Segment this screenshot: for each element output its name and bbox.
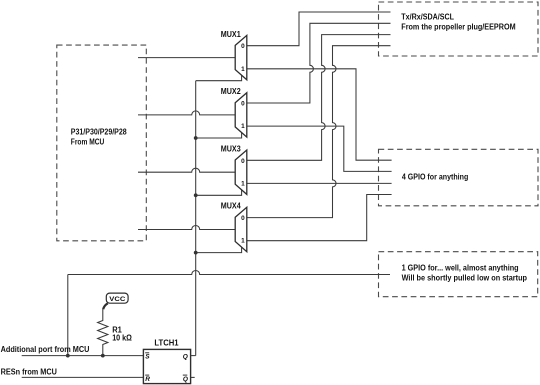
svg-text:1: 1: [241, 123, 245, 130]
node select bus to MUX3: [194, 193, 198, 197]
node resistor bottom junction: [101, 354, 105, 358]
dashed box: 4 GPIO for anything: [379, 149, 539, 206]
node select bus to MUX2: [194, 136, 198, 140]
svg-text:LTCH1: LTCH1: [154, 338, 179, 347]
svg-text:0: 0: [241, 43, 245, 50]
svg-text:0: 0: [241, 158, 245, 165]
wire MUX3 input from MCU box (hops over select bus): [138, 168, 235, 172]
multiplexer MUX4: [235, 207, 247, 251]
pin R latch: [145, 375, 150, 383]
wire MUX3 output 0 to Tx/Rx box (vertical hops over MUX1,MUX2 out1): [247, 35, 391, 161]
svg-text:MUX4: MUX4: [221, 202, 241, 211]
svg-text:1 GPIO for... well, almost any: 1 GPIO for... well, almost anything: [402, 264, 519, 273]
wire MUX1 output 1 to GPIO box: [247, 69, 392, 160]
wire MUX2 input from MCU box (hops over select bus): [138, 111, 235, 115]
node select bus to MUX4: [194, 251, 198, 255]
wire MUX2 output 0 to Tx/Rx box (vertical hops over MUX1 out1): [247, 23, 391, 103]
pin S latch: [145, 353, 150, 361]
wire MUX1 select: [196, 75, 242, 81]
wire MUX4 output 1 to GPIO box: [247, 195, 392, 241]
svg-text:0: 0: [241, 215, 245, 222]
dashed box: P31/P30/P29/P28 from MCU: [57, 45, 147, 241]
power VCC: [103, 293, 128, 309]
svg-text:From the propeller plug/EEPROM: From the propeller plug/EEPROM: [401, 23, 516, 32]
svg-text:S: S: [145, 354, 150, 361]
multiplexer MUX2: [235, 93, 247, 137]
svg-text:0: 0: [241, 101, 245, 108]
wire MUX1 input from MCU box: [138, 57, 235, 59]
wire latch Qbar stub: [191, 376, 195, 378]
svg-text:P31/P30/P29/P28: P31/P30/P29/P28: [71, 128, 127, 137]
svg-text:10 kΩ: 10 kΩ: [112, 334, 132, 343]
svg-text:MUX3: MUX3: [221, 144, 241, 153]
wire MUX3 select: [196, 190, 242, 196]
svg-text:Q: Q: [183, 354, 188, 361]
svg-text:1: 1: [241, 66, 245, 73]
wire vertical from 1 GPIO wire down to additional port wire: [67, 275, 69, 356]
wire MUX2 select: [196, 133, 242, 139]
wire RESn from MCU to latch R: [22, 376, 144, 378]
pin Qbar latch: [183, 375, 188, 383]
wire MUX4 output 0 to Tx/Rx box (vertical hops over MUX1,MUX2,MUX3 out1): [247, 46, 391, 218]
wire MUX3 output 1 to GPIO box: [247, 182, 392, 184]
wire latch output to 1 GPIO box (hops over select bus): [68, 271, 390, 275]
dashed box: 1 GPIO for... well, almost anything: [379, 252, 538, 297]
svg-text:Additional port from MCU: Additional port from MCU: [1, 345, 90, 354]
svg-text:1: 1: [241, 180, 245, 187]
wire latch Q to select bus: [191, 355, 196, 357]
wire MUX4 input from MCU box (hops over select bus): [138, 226, 235, 230]
svg-text:R: R: [145, 376, 150, 383]
dashed box: Tx/Rx/SDA/SCL from propeller plug/EEPROM: [379, 2, 539, 56]
svg-text:4 GPIO for anything: 4 GPIO for anything: [402, 173, 468, 182]
resistor R1: [98, 309, 108, 356]
svg-text:MUX1: MUX1: [221, 30, 241, 39]
svg-text:VCC: VCC: [109, 296, 125, 303]
svg-text:1: 1: [241, 238, 245, 245]
svg-text:Q: Q: [183, 376, 188, 383]
latch LTCH1: [143, 349, 190, 383]
node additional port wire junction: [66, 354, 70, 358]
svg-text:From MCU: From MCU: [71, 137, 105, 146]
svg-text:Tx/Rx/SDA/SCL: Tx/Rx/SDA/SCL: [401, 13, 454, 22]
wire MUX4 select: [196, 247, 242, 253]
svg-text:Will be shortly pulled low on: Will be shortly pulled low on startup: [402, 273, 528, 282]
wire select bus vertical from MUX1 select to latch Q: [195, 81, 197, 356]
wire MUX1 output 0 to Tx/Rx box: [247, 12, 391, 46]
svg-text:MUX2: MUX2: [221, 87, 241, 96]
wire additional port from MCU to latch S: [22, 355, 144, 357]
multiplexer MUX3: [235, 150, 247, 194]
wire MUX2 output 1 to GPIO box: [247, 126, 392, 171]
multiplexer MUX1: [235, 35, 247, 79]
svg-text:RESn from MCU: RESn from MCU: [1, 367, 57, 376]
